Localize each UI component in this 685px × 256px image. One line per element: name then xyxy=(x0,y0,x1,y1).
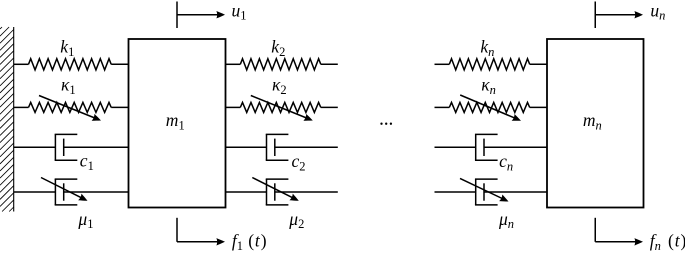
wire: damper c1 piston to mass m1 xyxy=(64,146,129,148)
spring kn xyxy=(449,59,529,70)
wire: damper cn open end xyxy=(435,146,476,148)
spring kappa2 (adjustable) xyxy=(240,102,320,112)
ellipsis (continuation dots) xyxy=(380,123,392,125)
arrow fn xyxy=(595,238,643,245)
wire: spring kn to mass mn xyxy=(530,63,547,65)
arrow: adjustability marker on mu1 xyxy=(41,178,89,205)
arrow un xyxy=(595,11,643,18)
mass m1 xyxy=(129,39,226,208)
wire: mass m1 to spring k2 xyxy=(226,63,241,65)
wire: spring kn open end xyxy=(435,63,450,65)
damper mu1 (adjustable) xyxy=(55,179,78,205)
wire: wall to spring k1 xyxy=(14,63,29,65)
arrow f1 xyxy=(177,238,225,245)
arrow: adjustability marker on mu2 xyxy=(252,178,300,205)
force lead line fn xyxy=(594,218,596,242)
displacement reference line u1 xyxy=(176,2,178,29)
svg-text:(t): (t) xyxy=(248,231,267,251)
damper c1 xyxy=(55,134,78,160)
mass mn xyxy=(547,39,644,208)
svg-text:(t): (t) xyxy=(668,231,685,251)
wire: spring kappan open end xyxy=(435,106,450,108)
wire: wall to damper mu1 xyxy=(14,191,56,193)
wire: damper mu2 open end xyxy=(275,191,338,193)
force lead line f1 xyxy=(176,218,178,242)
damper mun (adjustable) xyxy=(475,179,498,205)
wire: mass m1 to damper mu2 xyxy=(226,191,267,193)
displacement reference line un xyxy=(594,2,596,29)
wire: damper c2 open end xyxy=(275,146,338,148)
wire: damper mun open end xyxy=(435,191,476,193)
arrow: adjustability marker on kappa1 xyxy=(39,96,102,124)
wire: damper mun to mass mn xyxy=(484,191,547,193)
wire: wall to damper c1 xyxy=(14,146,56,148)
arrow: adjustability marker on kappa2 xyxy=(251,96,314,124)
spring kappa1 (adjustable) xyxy=(29,102,112,112)
wire: damper cn to mass mn xyxy=(484,146,547,148)
arrow u1 xyxy=(177,11,225,18)
damper cn xyxy=(475,134,498,160)
wire: spring kappa1 to mass m1 xyxy=(111,106,128,108)
wire: mass m1 to spring kappa2 xyxy=(226,106,241,108)
wire: spring k1 to mass m1 xyxy=(111,63,128,65)
wire: wall to spring kappa1 xyxy=(14,106,29,108)
spring k2 xyxy=(240,59,320,70)
arrow: adjustability marker on kappan xyxy=(460,95,522,124)
wire: damper mu1 piston to mass m1 xyxy=(64,191,129,193)
damper mu2 (adjustable) xyxy=(266,179,289,205)
spring k1 xyxy=(29,59,112,70)
wire: spring k2 open end xyxy=(321,63,338,65)
wall (fixed support, hatched) xyxy=(0,27,14,212)
wire: mass m1 to damper c2 xyxy=(226,146,267,148)
wire: spring kappa2 open end xyxy=(321,106,338,108)
spring kappan (adjustable) xyxy=(449,102,529,112)
wire: spring kappan to mass mn xyxy=(530,106,547,108)
damper c2 xyxy=(266,134,289,160)
arrow: adjustability marker on mun xyxy=(460,178,510,204)
